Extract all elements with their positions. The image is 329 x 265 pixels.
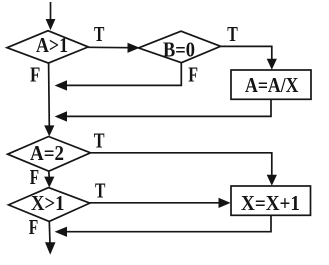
svg-text:B=0: B=0 [163,38,195,62]
arrowhead into A>1 [46,19,56,30]
arrowhead into X>1 [44,177,54,188]
arrowhead A=A/X return [55,111,67,121]
wire A=2 false down to X>1 [48,171,51,177]
arrowhead exit bottom [45,242,56,255]
decision A>1 [7,31,88,63]
svg-text:F: F [30,165,39,189]
svg-text:T: T [95,178,105,202]
wire B=0 true to box A=A/X [221,46,272,60]
svg-text:F: F [30,62,40,86]
process box X=X+1 [231,186,311,215]
svg-text:X=X+1: X=X+1 [241,191,300,215]
svg-text:A>1: A>1 [36,33,68,57]
svg-text:F: F [188,62,198,86]
wire B=0 false return [65,63,182,86]
arrowhead B=0 false return [55,80,67,90]
arrowhead into A=2 [44,125,54,136]
wire A=A/X output return [65,99,272,116]
arrowhead X=X+1 return [55,227,67,237]
wire start-arrow stem [50,2,52,21]
decision B=0 [139,31,221,63]
svg-text:T: T [94,22,104,46]
wire X>1 true to box X=X+1 [90,202,220,204]
arrowhead into B=0 [128,43,140,53]
wire A=2 true to box X=X+1 [91,153,272,176]
arrowhead into X=X+1 top [267,175,277,186]
svg-text:A=A/X: A=A/X [245,73,299,97]
svg-text:T: T [227,22,238,46]
wire A>1 true to B=0 [88,46,129,48]
arrowhead into X=X+1 left [219,198,231,208]
process box A=A/X [231,70,311,99]
svg-text:F: F [29,215,39,239]
arrowhead into A=A/X [267,59,277,70]
decision X>1 [9,188,90,222]
wire main vertical A>1 false down to A=2 [48,63,51,126]
svg-text:X>1: X>1 [31,191,65,215]
wire X=X+1 output return [65,215,272,231]
wire X>1 false exit [48,221,51,244]
svg-text:T: T [94,129,105,153]
decision A=2 [8,137,91,172]
svg-text:A=2: A=2 [30,141,64,165]
